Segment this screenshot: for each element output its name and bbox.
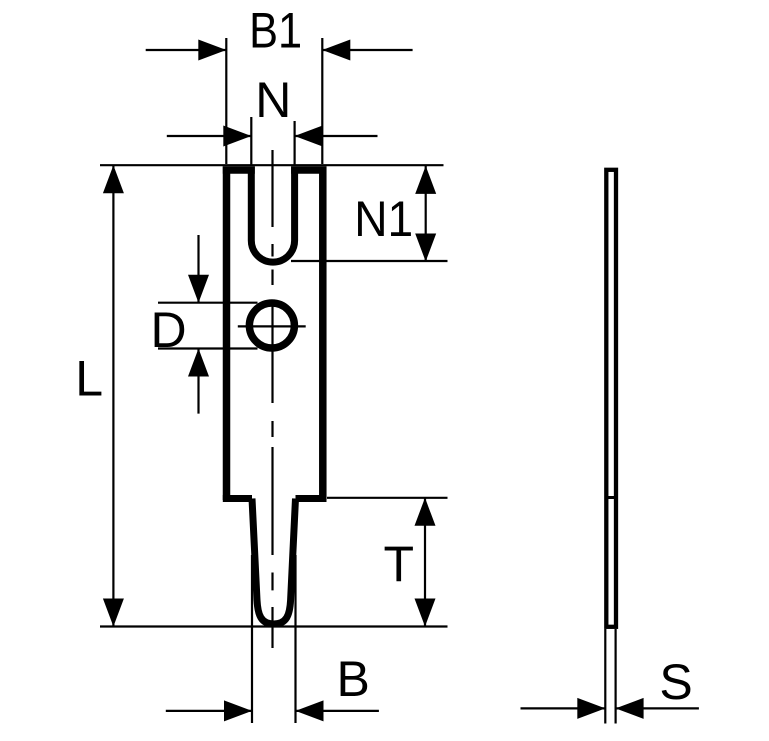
node L bottom arrowhead	[103, 599, 124, 627]
svg-text:T: T	[384, 536, 415, 592]
wire D top tangent line	[158, 302, 258, 304]
svg-text:N: N	[255, 72, 291, 128]
node T top arrowhead	[415, 498, 436, 526]
wire N dimension line right tail	[295, 135, 378, 137]
node L top arrowhead	[103, 165, 124, 193]
node front-view top edge right segment	[291, 166, 326, 174]
node N1 top arrowhead	[415, 166, 436, 194]
wire top extension line (L / N1 top reference)	[100, 164, 444, 166]
wire D bottom tangent line	[158, 347, 258, 349]
node front-view shoulder right step	[296, 495, 327, 502]
wire S right extension line	[614, 629, 616, 724]
node N1 bottom arrowhead	[415, 234, 436, 262]
wire N left extension line	[250, 117, 252, 166]
node front-view hole circle	[249, 303, 294, 348]
wire vertical centerline (dash-dot)	[271, 150, 273, 648]
wire B dimension line left tail	[166, 710, 252, 712]
wire N dimension line left tail	[167, 135, 252, 137]
node B left arrowhead	[224, 700, 252, 721]
wire B dimension line right tail	[296, 710, 379, 712]
node D down arrowhead	[188, 275, 209, 303]
wire N1 dimension line	[425, 166, 427, 262]
node front-view pin with rounded tip	[252, 499, 296, 625]
svg-text:L: L	[75, 351, 103, 407]
node N right arrowhead	[295, 126, 323, 147]
node side-view shoulder tick	[605, 496, 615, 499]
svg-text:B: B	[337, 651, 370, 707]
node B1 left arrowhead	[198, 40, 226, 61]
node D up arrowhead	[188, 349, 209, 377]
node B right arrowhead	[296, 700, 324, 721]
node T bottom arrowhead	[415, 599, 436, 627]
wire B1 dimension line left tail	[146, 49, 227, 51]
node front-view body left edge	[223, 167, 231, 501]
node S right arrowhead	[616, 698, 644, 719]
wire T top reference line	[327, 497, 448, 499]
wire B1 right extension line	[321, 38, 323, 164]
svg-text:B1: B1	[249, 3, 302, 59]
node front-view slot U	[251, 167, 294, 263]
wire L dimension line	[112, 165, 114, 626]
svg-text:D: D	[151, 302, 187, 358]
svg-text:S: S	[659, 654, 692, 710]
node S left arrowhead	[577, 698, 605, 719]
wire S dimension line left tail	[521, 707, 606, 709]
wire bottom extension line (L / T bottom reference)	[100, 625, 448, 627]
wire B1 dimension line right tail	[322, 49, 412, 51]
wire hole horizontal crosshair	[238, 325, 306, 327]
node side-view outline	[606, 170, 616, 627]
wire T dimension line	[424, 498, 426, 627]
wire B right extension line	[294, 555, 296, 723]
node B1 right arrowhead	[322, 40, 350, 61]
node N left arrowhead	[223, 126, 251, 147]
wire D upper arrow line	[197, 235, 199, 303]
wire S left extension line	[604, 629, 606, 724]
wire S dimension line right tail	[616, 707, 699, 709]
wire B left extension line	[251, 555, 253, 723]
svg-text:N1: N1	[354, 191, 413, 247]
node front-view top edge left segment	[223, 166, 255, 174]
wire B1 left extension line	[225, 38, 227, 164]
node front-view shoulder left step	[223, 495, 252, 502]
wire N right extension line	[294, 121, 296, 166]
wire N1 bottom reference line	[291, 260, 448, 262]
node front-view body right edge	[319, 167, 327, 501]
wire D lower arrow line	[197, 349, 199, 414]
